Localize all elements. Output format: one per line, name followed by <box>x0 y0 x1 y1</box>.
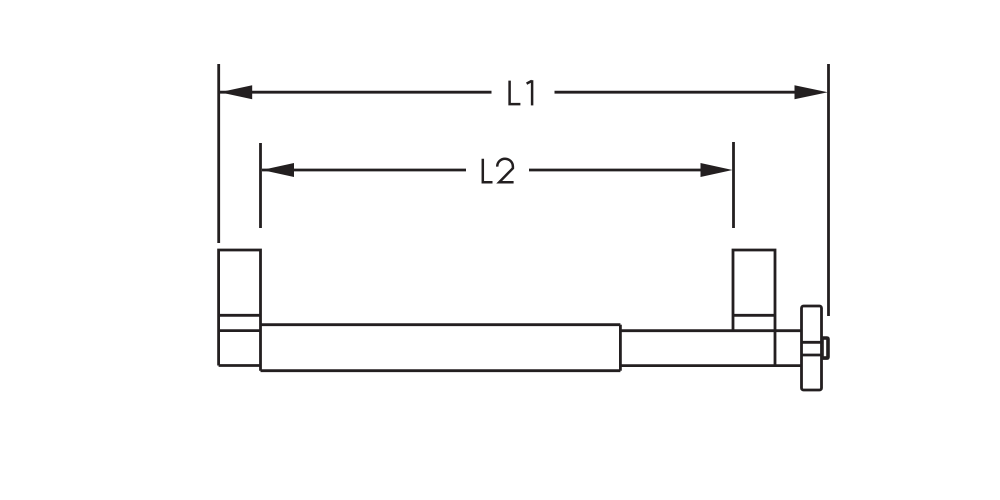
dimension line L2 right segment <box>529 169 703 172</box>
dimension line L1 left segment <box>220 91 492 94</box>
label L1 letter L <box>510 81 521 105</box>
screw shank line upper <box>802 341 824 344</box>
label L2 digit 2 <box>497 159 513 183</box>
right mounting block outline <box>733 250 775 366</box>
dimension line L2 left segment <box>262 169 466 172</box>
dimension line L1 right segment <box>555 91 799 94</box>
screw button head <box>823 336 830 360</box>
end disc (washer plate) <box>802 306 822 390</box>
cylinder tube right end edge <box>619 325 622 371</box>
extension line left (L1) <box>217 64 220 243</box>
left block slot line lower <box>219 329 261 332</box>
piston rod bottom edge <box>620 364 801 367</box>
left block bottom edge <box>219 364 261 367</box>
label L1 digit 1 flag <box>527 81 532 84</box>
extension line right (L1) <box>827 64 830 316</box>
extension line left (L2) <box>259 143 262 228</box>
left mounting block outline <box>219 250 261 371</box>
left block slot line upper <box>219 314 261 317</box>
label L1 digit 1 stem <box>531 80 534 105</box>
cylinder tube bottom edge <box>261 369 621 372</box>
arrowhead L1 left <box>220 85 252 99</box>
arrowhead L2 right <box>701 163 733 177</box>
label L2 letter L <box>483 159 493 183</box>
screw shank line lower <box>802 354 824 357</box>
arrowhead L2 left <box>262 163 294 177</box>
arrowhead L1 right <box>795 85 828 99</box>
screw head inner highlight <box>824 340 826 356</box>
piston rod top edge <box>620 329 801 332</box>
extension line right (L2) <box>732 142 735 228</box>
right block slot line <box>733 314 775 317</box>
cylinder tube top edge <box>261 323 621 326</box>
